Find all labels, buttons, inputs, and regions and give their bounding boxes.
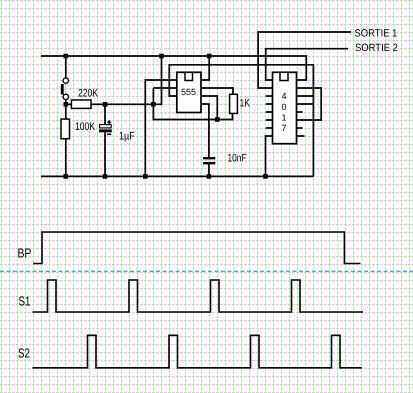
push-button BP actuator bar bbox=[61, 84, 64, 95]
wire switch top: rail down to push-button bbox=[65, 56, 67, 78]
wire 555 GND pin left to ground bus bbox=[145, 80, 177, 176]
pin 4017 right stub 7 bbox=[297, 127, 303, 129]
capacitor C1 1uF polarized: plus sign bbox=[107, 120, 111, 124]
pin 4017 left stub 3 bbox=[266, 95, 273, 97]
svg-text:1µF: 1µF bbox=[119, 131, 135, 143]
capacitor C1 minus sign bbox=[107, 133, 111, 135]
4017 notch bbox=[280, 72, 288, 80]
resistor 220K body bbox=[71, 100, 91, 108]
wire 220K to node B and to RC junction and up to rail bbox=[91, 56, 162, 104]
capacitor C1 bottom plate filled bbox=[99, 129, 112, 132]
wire RC junction down and right to 1K bottom bbox=[153, 88, 232, 120]
wire VCC top rail from x41 to elbow down into 4017 pin1 right bbox=[41, 56, 306, 80]
svg-text:10nF: 10nF bbox=[228, 153, 247, 165]
svg-text:0: 0 bbox=[282, 102, 287, 112]
wire 4017 pin8 left down to ground bus bbox=[266, 136, 273, 176]
pin 4017 left stub 6 bbox=[266, 119, 273, 121]
wire 4017 pin1 left up to SORTIE 2 bbox=[266, 49, 348, 80]
svg-text:555: 555 bbox=[181, 87, 196, 97]
capacitor 10nF bottom plate bbox=[203, 162, 215, 164]
pin 4017 right stub 5 bbox=[297, 111, 303, 113]
555 notch bbox=[185, 72, 193, 80]
svg-text:7: 7 bbox=[282, 123, 287, 133]
svg-text:SORTIE 2: SORTIE 2 bbox=[355, 42, 398, 54]
capacitor 10nF top plate bbox=[203, 157, 215, 159]
svg-text:1K: 1K bbox=[240, 98, 251, 110]
pin 4017 left stub 5 bbox=[266, 111, 273, 113]
svg-text:220K: 220K bbox=[78, 88, 99, 100]
wire 555 pin 7 right to 1K top bbox=[201, 88, 233, 94]
wire 555 pin out right down to RC bottom wire junction bbox=[201, 96, 217, 120]
wire 4017 pin2 right bracket to pin6 right bbox=[297, 88, 322, 120]
node ground 555gnd junction bbox=[143, 174, 148, 179]
pin 4017 left stub 4 bbox=[266, 103, 273, 105]
node RC junction dot bbox=[151, 102, 156, 107]
push-button BP top contact circle bbox=[63, 78, 68, 83]
wire 100K bottom to ground bus bbox=[65, 139, 67, 177]
svg-text:1: 1 bbox=[282, 113, 287, 123]
op-amp U1 555 body bbox=[177, 72, 201, 112]
svg-text:BP: BP bbox=[18, 245, 32, 260]
wire node A to 220K bbox=[66, 103, 72, 105]
node rail-RC vertical junction bbox=[159, 54, 164, 59]
waveform BP pulse bbox=[33, 232, 360, 264]
wire C1 bottom to ground bus bbox=[104, 132, 106, 176]
svg-text:SORTIE 1: SORTIE 1 bbox=[355, 27, 398, 39]
svg-text:S2: S2 bbox=[18, 346, 30, 361]
node switch-rail junction bbox=[64, 54, 69, 59]
wire 555 pin 5 right down to 10nF capacitor bbox=[201, 104, 209, 157]
wire switch bottom to node A bbox=[65, 100, 67, 105]
wire node A down to 100K bbox=[65, 104, 67, 119]
wire node B down to capacitor C1 bbox=[104, 104, 106, 125]
node ground 100K junction bbox=[64, 174, 69, 179]
resistor 1K body bbox=[230, 94, 238, 113]
push-button BP bottom contact circle bbox=[63, 94, 68, 99]
node A junction switch/220K/100K bbox=[64, 102, 69, 107]
node ground 10nF junction bbox=[207, 174, 212, 179]
wire 555 pin 2 left up and over to long vertical down to ground bbox=[169, 65, 313, 177]
svg-text:100K: 100K bbox=[75, 121, 96, 133]
wire ground bus bbox=[41, 175, 313, 177]
resistor 100K body bbox=[61, 119, 70, 139]
capacitor C1 top plate hollow bbox=[100, 125, 112, 128]
wire 4017 pin2 left up to SORTIE 1 bbox=[258, 32, 351, 88]
pin 4017 right stub 8 bbox=[297, 135, 305, 137]
counter U2 4017 body bbox=[273, 72, 297, 143]
node ground C1 junction bbox=[103, 174, 108, 179]
pin 4017 left stub 7 bbox=[266, 127, 273, 129]
node ground 4017 pin8 junction bbox=[263, 174, 268, 179]
waveform S2 pulses bbox=[33, 335, 363, 368]
svg-text:S1: S1 bbox=[19, 293, 31, 308]
wire 555 pin 8 right up to rail bbox=[201, 56, 209, 80]
svg-text:4: 4 bbox=[282, 91, 287, 101]
junction dots bbox=[64, 54, 268, 179]
waveform S1 pulses bbox=[33, 280, 364, 312]
node rail-555 pin8 junction bbox=[207, 54, 212, 59]
node B junction 220K/C1 bbox=[103, 102, 108, 107]
dashed cyan separator line bbox=[0, 270, 413, 272]
pin 4017 right stub 4 to long vertical bbox=[297, 103, 314, 105]
node 555 out junction on bottom wire bbox=[215, 117, 220, 122]
wire RC junction elbow to 555 pin 6 left bbox=[153, 87, 176, 89]
pin 4017 right stub to long vertical bbox=[297, 95, 314, 97]
wire 10nF bottom to ground bus bbox=[208, 164, 210, 176]
